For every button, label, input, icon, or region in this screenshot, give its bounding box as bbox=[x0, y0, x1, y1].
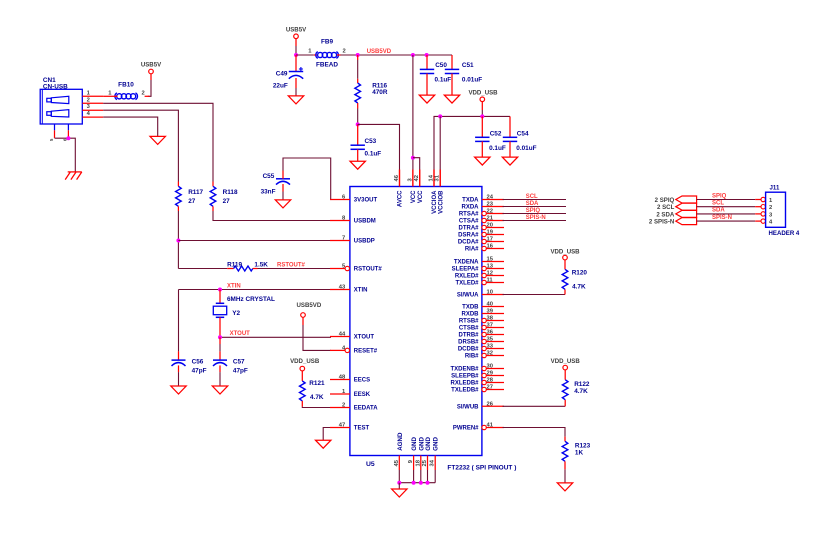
svg-text:45: 45 bbox=[394, 459, 400, 466]
wire SI/WUA to R120 bbox=[503, 294, 566, 296]
svg-text:11: 11 bbox=[487, 278, 494, 284]
wire C55 to ground bbox=[282, 184, 284, 192]
capacitor C51 0.01uF bbox=[451, 55, 453, 69]
power terminal VDD_USB (R120) bbox=[563, 255, 568, 260]
node USBDP junction bbox=[176, 239, 180, 243]
wire VDD_USB rail to VCCIO pins bbox=[434, 116, 510, 169]
svg-text:TXDA: TXDA bbox=[462, 198, 479, 204]
svg-text:2: 2 bbox=[769, 205, 772, 211]
capacitor C57 47pF bbox=[213, 359, 227, 361]
U5 top pin 31 VCCIOB bbox=[439, 170, 441, 187]
svg-text:47: 47 bbox=[339, 423, 345, 429]
node XTIN/crystal junction bbox=[218, 288, 222, 292]
svg-text:RXDB: RXDB bbox=[461, 312, 479, 318]
node VCCIOB branch bbox=[438, 114, 442, 118]
svg-text:0.1uF: 0.1uF bbox=[435, 76, 452, 83]
wire XTIN to C56 bbox=[178, 290, 180, 352]
U5 pin 26 SI/WUB bbox=[482, 405, 504, 407]
U5 bottom pin 45 AGND bbox=[398, 456, 400, 471]
svg-text:3: 3 bbox=[769, 212, 773, 218]
svg-text:EECS: EECS bbox=[354, 378, 370, 384]
U5 pin 29 SLEEPB# bbox=[482, 373, 486, 377]
resistor R117 bbox=[176, 186, 182, 206]
svg-text:1.5K: 1.5K bbox=[254, 261, 268, 268]
svg-text:XTIN: XTIN bbox=[354, 288, 368, 294]
svg-text:22: 22 bbox=[487, 209, 493, 215]
capacitor C54 0.01uF bbox=[509, 116, 511, 137]
wire bus down to ground symbol bbox=[398, 483, 400, 489]
power terminal USB5V (top) bbox=[294, 34, 299, 39]
wire SPIS-N net from U5 bbox=[503, 220, 567, 222]
U5 top pin 42 VCC bbox=[419, 170, 421, 187]
svg-text:27: 27 bbox=[188, 198, 196, 205]
ground (C50) bbox=[419, 95, 434, 103]
node R116 top junction bbox=[356, 53, 360, 57]
svg-text:R119: R119 bbox=[227, 261, 242, 268]
svg-text:DRSB#: DRSB# bbox=[458, 340, 479, 346]
svg-text:36: 36 bbox=[487, 330, 494, 336]
svg-text:EEDATA: EEDATA bbox=[354, 406, 378, 412]
svg-text:R122: R122 bbox=[574, 381, 590, 388]
wire R119 to RSTOUT# pin 5 bbox=[258, 268, 332, 270]
svg-text:R123: R123 bbox=[575, 442, 591, 449]
ground (U5 GND) bbox=[392, 489, 407, 497]
capacitor C53 0.1uF bbox=[357, 124, 359, 145]
svg-text:0.1uF: 0.1uF bbox=[365, 151, 382, 158]
U5 pin 6 3V3OUT bbox=[330, 199, 350, 201]
svg-text:CN-USB: CN-USB bbox=[43, 84, 68, 91]
CN1 pin 1 bbox=[82, 95, 103, 97]
wire XTOUT to C57 bbox=[219, 337, 221, 344]
resistor R118 bbox=[210, 186, 216, 206]
U5 pin 48 EECS bbox=[330, 379, 350, 381]
node VCC42 branch junction bbox=[411, 156, 415, 160]
svg-text:27: 27 bbox=[223, 198, 231, 205]
wire C55 to 3V3OUT pin 6 bbox=[282, 171, 284, 179]
U5 pin 33 DCDB# bbox=[482, 346, 486, 350]
svg-text:4: 4 bbox=[769, 220, 773, 226]
svg-text:39: 39 bbox=[487, 309, 494, 315]
svg-text:TEST: TEST bbox=[354, 426, 370, 432]
svg-text:VDD_USB: VDD_USB bbox=[468, 90, 498, 97]
wire USB5VD to RESET# pin 4 bbox=[302, 317, 304, 325]
svg-text:4.7K: 4.7K bbox=[574, 388, 588, 395]
svg-text:RTSB#: RTSB# bbox=[459, 319, 479, 325]
svg-text:USB5VD: USB5VD bbox=[297, 302, 322, 309]
node C53/AVCC junction bbox=[356, 122, 360, 126]
svg-text:10: 10 bbox=[487, 290, 493, 296]
U5 bottom pin 18 GND bbox=[420, 456, 422, 471]
svg-text:2 SDA: 2 SDA bbox=[656, 211, 675, 218]
svg-text:SCL: SCL bbox=[526, 194, 538, 200]
wire SDA net from U5 bbox=[503, 206, 567, 208]
node VCC drop junction bbox=[411, 53, 415, 57]
svg-text:31: 31 bbox=[435, 174, 441, 181]
svg-text:C54: C54 bbox=[517, 131, 529, 138]
svg-text:SI/WUA: SI/WUA bbox=[457, 293, 479, 299]
U5 pin 19 DSRA# bbox=[482, 232, 486, 236]
U5 pin 41 PWREN# bbox=[482, 425, 486, 429]
ground (C51) bbox=[444, 95, 459, 103]
svg-text:EESK: EESK bbox=[354, 392, 371, 398]
svg-text:R120: R120 bbox=[572, 269, 588, 276]
svg-text:GND: GND bbox=[433, 437, 440, 451]
svg-text:VCCIOB: VCCIOB bbox=[438, 190, 444, 214]
resistor R120 4.7K bbox=[562, 269, 568, 289]
wire USBDP junction to pin 7 bbox=[178, 240, 331, 242]
CN1 pin 4 bbox=[82, 116, 103, 118]
wire USB5V to FB10 pin 2 bbox=[150, 74, 152, 80]
svg-text:26: 26 bbox=[487, 401, 494, 407]
resistor R122 4.7K bbox=[562, 380, 568, 400]
chassis ground (CN1 shield) bbox=[68, 171, 82, 173]
svg-text:29: 29 bbox=[487, 371, 494, 377]
U5 pin 37 CTSB# bbox=[482, 325, 486, 329]
wire SCL to J11 pin 2 bbox=[697, 206, 756, 208]
U5 top pin 46 AVCC bbox=[399, 170, 401, 187]
svg-text:4.7K: 4.7K bbox=[310, 394, 324, 401]
U5 pin 2 EEDATA bbox=[330, 407, 350, 409]
svg-text:1: 1 bbox=[108, 90, 112, 96]
svg-text:U5: U5 bbox=[366, 461, 375, 468]
svg-text:1K: 1K bbox=[575, 450, 584, 457]
svg-text:23: 23 bbox=[487, 202, 494, 208]
svg-text:35: 35 bbox=[487, 337, 494, 343]
svg-text:SLEEPB#: SLEEPB# bbox=[451, 374, 479, 380]
ground (C57) bbox=[212, 386, 227, 394]
U5 bottom pin 9 GND bbox=[413, 456, 415, 471]
ground (C56) bbox=[171, 386, 186, 394]
svg-text:C50: C50 bbox=[435, 62, 447, 69]
wire junction down to R119 bbox=[178, 268, 227, 270]
svg-text:SPIQ: SPIQ bbox=[526, 208, 541, 214]
wire CN1 pin3 to R117 (USBDP) bbox=[103, 110, 178, 181]
svg-text:RXLEDB#: RXLEDB# bbox=[450, 381, 479, 387]
J11 pin 1 bbox=[761, 197, 765, 201]
svg-text:43: 43 bbox=[339, 285, 346, 291]
wire CN1 pin2 to R118 (USBDM) bbox=[103, 103, 213, 181]
U5 pin 39 RXDB bbox=[482, 313, 504, 315]
svg-text:2 SCL: 2 SCL bbox=[657, 204, 675, 211]
svg-text:SDA: SDA bbox=[526, 201, 539, 207]
svg-text:TXLED#: TXLED# bbox=[455, 281, 479, 287]
svg-text:C51: C51 bbox=[462, 62, 474, 69]
ground (C55) bbox=[275, 200, 290, 208]
off-page connector 2 SDA bbox=[676, 210, 697, 217]
wire TEST pin to ground bbox=[323, 428, 331, 441]
wire VDD_USB down to rail bbox=[481, 102, 483, 110]
svg-text:0.01uF: 0.01uF bbox=[462, 76, 482, 83]
svg-text:33nF: 33nF bbox=[261, 188, 276, 195]
svg-text:FB10: FB10 bbox=[118, 82, 134, 89]
ground (TEST) bbox=[316, 440, 331, 448]
off-page connector 2 SPIS-N bbox=[676, 218, 697, 225]
svg-text:VDD_USB: VDD_USB bbox=[290, 358, 320, 365]
svg-text:25: 25 bbox=[422, 459, 428, 466]
wire XTIN net bbox=[179, 289, 332, 291]
off-page connector 2 SCL bbox=[676, 203, 697, 210]
svg-text:41: 41 bbox=[487, 423, 494, 429]
svg-text:2: 2 bbox=[142, 90, 145, 96]
ferrite bead FB10 bbox=[117, 94, 122, 99]
wire SPIS-N to J11 pin 4 bbox=[697, 220, 756, 222]
ground (C49) bbox=[288, 96, 303, 104]
svg-text:C52: C52 bbox=[490, 131, 502, 138]
svg-text:47pF: 47pF bbox=[192, 367, 207, 374]
svg-text:18: 18 bbox=[415, 459, 421, 466]
svg-text:DSRA#: DSRA# bbox=[458, 233, 479, 239]
U5 pin 28 RXLEDB# bbox=[482, 380, 486, 384]
U5 pin 30 TXDENB# bbox=[482, 366, 486, 370]
U5 pin 38 RTSB# bbox=[482, 318, 486, 322]
svg-text:24: 24 bbox=[487, 195, 494, 201]
svg-text:33: 33 bbox=[487, 344, 494, 350]
wire junction to FB9 pin 1 bbox=[296, 54, 314, 56]
svg-text:RESET#: RESET# bbox=[354, 349, 378, 355]
CN1 pin 2 bbox=[82, 102, 103, 104]
svg-text:XTOUT: XTOUT bbox=[230, 331, 251, 337]
svg-text:27: 27 bbox=[487, 385, 493, 391]
svg-text:RSTOUT#: RSTOUT# bbox=[354, 267, 383, 273]
U5 pin 17 DCDA# bbox=[482, 239, 486, 243]
U5 pin 15 TXDENA bbox=[482, 261, 504, 263]
svg-text:XTIN: XTIN bbox=[227, 283, 241, 289]
svg-text:SPIS-N: SPIS-N bbox=[712, 215, 732, 221]
wire XTOUT net bbox=[220, 336, 331, 338]
node XTOUT/crystal junction bbox=[218, 335, 222, 339]
node USB5V/C49/FB9 junction bbox=[294, 53, 298, 57]
svg-text:GND: GND bbox=[411, 437, 418, 451]
U5 pin 10 SI/WUA bbox=[482, 294, 504, 296]
capacitor C55 33nF bbox=[276, 178, 290, 180]
svg-text:28: 28 bbox=[487, 378, 494, 384]
ground (CN1 pin 4) bbox=[150, 136, 165, 144]
svg-text:GND: GND bbox=[425, 437, 432, 451]
svg-text:15: 15 bbox=[487, 257, 494, 263]
svg-text:7: 7 bbox=[342, 236, 345, 242]
svg-text:RTSA#: RTSA# bbox=[459, 212, 479, 218]
svg-text:VCC: VCC bbox=[418, 190, 424, 203]
svg-text:R121: R121 bbox=[309, 380, 325, 387]
wire USB5V down to rail bbox=[295, 39, 297, 46]
ground (R123) bbox=[557, 483, 572, 491]
svg-text:TXDB: TXDB bbox=[462, 305, 479, 311]
svg-text:CTSB#: CTSB# bbox=[459, 326, 479, 332]
svg-text:VCCIOA: VCCIOA bbox=[432, 190, 438, 214]
svg-text:TXDENB#: TXDENB# bbox=[450, 367, 479, 373]
wire PWREN# to R123 bbox=[503, 428, 566, 437]
U5 pin 11 TXLED# bbox=[482, 280, 486, 284]
svg-text:0.01uF: 0.01uF bbox=[516, 145, 536, 152]
J11 pin 3 bbox=[761, 212, 765, 216]
svg-text:AVCC: AVCC bbox=[398, 190, 404, 207]
svg-text:USBDP: USBDP bbox=[354, 239, 375, 245]
svg-text:RXDA: RXDA bbox=[461, 205, 479, 211]
svg-text:TXDENA: TXDENA bbox=[454, 260, 479, 266]
svg-text:VDD_USB: VDD_USB bbox=[551, 358, 581, 365]
power terminal VDD_USB (R122) bbox=[563, 365, 568, 370]
svg-text:37: 37 bbox=[487, 323, 493, 329]
svg-text:FT2232 ( SPI PINOUT ): FT2232 ( SPI PINOUT ) bbox=[447, 465, 516, 472]
U5 pin 36 DTRB# bbox=[482, 332, 486, 336]
capacitor C56 47pF bbox=[172, 359, 186, 361]
wire AGND/GND bus to ground bbox=[398, 470, 400, 483]
wire R117 to USBDP pin 7 and R119 bbox=[177, 206, 179, 211]
CN1 pin 3 bbox=[82, 109, 103, 111]
svg-text:J11: J11 bbox=[770, 184, 780, 191]
svg-text:RSTOUT#: RSTOUT# bbox=[277, 263, 306, 269]
svg-text:TXLEDB#: TXLEDB# bbox=[451, 388, 479, 394]
svg-text:16: 16 bbox=[487, 244, 494, 250]
svg-text:C56: C56 bbox=[192, 359, 204, 366]
svg-text:42: 42 bbox=[414, 175, 420, 181]
svg-text:1: 1 bbox=[87, 90, 91, 96]
wire SDA to J11 pin 3 bbox=[697, 213, 756, 215]
svg-text:0.1uF: 0.1uF bbox=[489, 145, 506, 152]
svg-text:2: 2 bbox=[343, 49, 346, 55]
svg-text:SCL: SCL bbox=[712, 201, 724, 207]
U5 bottom pin 25 GND bbox=[427, 456, 429, 471]
svg-text:44: 44 bbox=[339, 332, 346, 338]
U5 pin 16 RIA# bbox=[482, 246, 486, 250]
J11 pin 2 bbox=[761, 205, 765, 209]
power terminal VDD_USB (top) bbox=[480, 97, 485, 102]
U5 pin 47 TEST bbox=[330, 427, 350, 429]
resistor R123 1K bbox=[562, 441, 568, 461]
svg-text:470R: 470R bbox=[372, 89, 388, 96]
U5 pin 44 XTOUT bbox=[330, 336, 350, 338]
U5 bottom pin 34 GND bbox=[434, 456, 436, 471]
U5 pin 32 RIB# bbox=[482, 353, 486, 357]
U5 pin 27 TXLEDB# bbox=[482, 387, 486, 391]
svg-text:USB5VD: USB5VD bbox=[367, 49, 392, 55]
svg-text:DTRA#: DTRA# bbox=[458, 226, 479, 232]
resistor R116 470R bbox=[357, 55, 359, 60]
resistor R119 1.5K bbox=[227, 268, 233, 270]
svg-text:17: 17 bbox=[487, 237, 493, 243]
U5 top pin 3 VCC bbox=[412, 170, 414, 187]
svg-text:CTSA#: CTSA# bbox=[459, 219, 479, 225]
svg-text:32: 32 bbox=[487, 351, 493, 357]
svg-text:RXLED#: RXLED# bbox=[455, 274, 479, 280]
svg-text:22uF: 22uF bbox=[273, 83, 288, 90]
connector J11 HEADER 4 body bbox=[766, 192, 786, 227]
svg-text:USB5V: USB5V bbox=[141, 61, 162, 68]
svg-text:AGND: AGND bbox=[397, 432, 404, 451]
capacitor C49 22uF bbox=[295, 55, 297, 72]
svg-text:C53: C53 bbox=[365, 138, 377, 145]
wire SPIQ to J11 pin 1 bbox=[697, 199, 756, 201]
svg-text:SI/WUB: SI/WUB bbox=[457, 405, 479, 411]
capacitor C50 0.1uF bbox=[426, 55, 428, 69]
svg-text:46: 46 bbox=[394, 174, 400, 181]
svg-text:6MHz CRYSTAL: 6MHz CRYSTAL bbox=[227, 296, 275, 303]
U5 pin 7 USBDP bbox=[330, 240, 350, 242]
connector CN1 CN-USB body bbox=[40, 89, 82, 124]
svg-text:2 SPIQ: 2 SPIQ bbox=[655, 197, 675, 204]
svg-text:4: 4 bbox=[87, 111, 91, 117]
off-page connector 2 SPIQ bbox=[676, 196, 697, 203]
svg-text:DCDA#: DCDA# bbox=[458, 240, 479, 246]
wire SCL net from U5 bbox=[503, 199, 567, 201]
wire C49 to ground bbox=[295, 78, 297, 88]
resistor R121 4.7K bbox=[301, 371, 303, 381]
U5 pin 23 RXDA bbox=[482, 206, 504, 208]
svg-text:4.7K: 4.7K bbox=[572, 284, 586, 291]
U5 pin 40 TXDB bbox=[482, 306, 504, 308]
svg-text:40: 40 bbox=[487, 302, 493, 308]
U5 pin 13 SLEEPA# bbox=[482, 266, 486, 270]
svg-text:3: 3 bbox=[87, 104, 91, 110]
svg-text:21: 21 bbox=[487, 216, 494, 222]
U5 pin 43 XTIN bbox=[330, 289, 350, 291]
svg-text:19: 19 bbox=[487, 230, 494, 236]
svg-text:2: 2 bbox=[87, 97, 90, 103]
svg-text:PWREN#: PWREN# bbox=[453, 426, 479, 432]
svg-text:RIA#: RIA# bbox=[465, 247, 479, 253]
ground (C53) bbox=[350, 161, 365, 169]
U5 pin 5 RSTOUT# bbox=[330, 268, 345, 270]
svg-text:DCDB#: DCDB# bbox=[458, 347, 479, 353]
U5 pin 35 DRSB# bbox=[482, 339, 486, 343]
U5 pin 20 DTRA# bbox=[482, 225, 486, 229]
svg-text:5: 5 bbox=[49, 138, 54, 141]
svg-text:48: 48 bbox=[339, 375, 346, 381]
svg-text:Y2: Y2 bbox=[232, 310, 240, 317]
svg-text:14: 14 bbox=[429, 174, 435, 181]
wire C53 junction to AVCC pin 46 bbox=[358, 124, 400, 169]
svg-text:FB9: FB9 bbox=[321, 39, 334, 46]
svg-text:VDD_USB: VDD_USB bbox=[550, 248, 580, 255]
svg-text:FBEAD: FBEAD bbox=[316, 61, 338, 68]
U5 pin 22 RTSA# bbox=[482, 211, 486, 215]
svg-text:12: 12 bbox=[487, 271, 493, 277]
svg-text:DTRB#: DTRB# bbox=[458, 333, 479, 339]
wire SPIQ net from U5 bbox=[503, 213, 567, 215]
wire R118 to USBDM pin 8 bbox=[212, 206, 214, 211]
ground (C52) bbox=[475, 157, 490, 165]
U5 top pin 14 VCCIOA bbox=[433, 170, 435, 187]
svg-text:R118: R118 bbox=[223, 189, 238, 196]
wire branch to VCC pin 42 bbox=[413, 158, 420, 170]
svg-text:C49: C49 bbox=[276, 71, 288, 78]
svg-text:13: 13 bbox=[487, 264, 494, 270]
wire USB5VD rail bbox=[337, 54, 341, 56]
svg-text:1: 1 bbox=[769, 198, 773, 204]
IC U5 FT2232 body bbox=[350, 187, 482, 456]
wire SI/WUB to R122 bbox=[503, 405, 566, 407]
svg-text:C55: C55 bbox=[263, 173, 275, 180]
U5 pin 24 TXDA bbox=[482, 199, 504, 201]
svg-text:SLEEPA#: SLEEPA# bbox=[452, 267, 480, 273]
svg-text:R117: R117 bbox=[188, 189, 203, 196]
svg-text:2: 2 bbox=[342, 403, 345, 409]
svg-text:30: 30 bbox=[487, 364, 493, 370]
J11 pin 4 bbox=[761, 219, 765, 223]
power terminal USB5V (at CN1) bbox=[149, 69, 154, 74]
ferrite bead FB9 FBEAD bbox=[318, 52, 323, 57]
CN1 shield pins 5 6 bbox=[54, 124, 56, 130]
svg-text:38: 38 bbox=[487, 316, 494, 322]
node C50 junction bbox=[425, 53, 429, 57]
svg-text:XTOUT: XTOUT bbox=[354, 335, 375, 341]
power terminal VDD_USB (R121) bbox=[300, 366, 305, 371]
U5 pin 1 EESK bbox=[330, 393, 350, 395]
wire R123 to ground bbox=[564, 461, 566, 469]
svg-text:SPIS-N: SPIS-N bbox=[526, 215, 546, 221]
svg-text:USB5V: USB5V bbox=[286, 27, 307, 34]
svg-text:USBDM: USBDM bbox=[354, 219, 376, 225]
